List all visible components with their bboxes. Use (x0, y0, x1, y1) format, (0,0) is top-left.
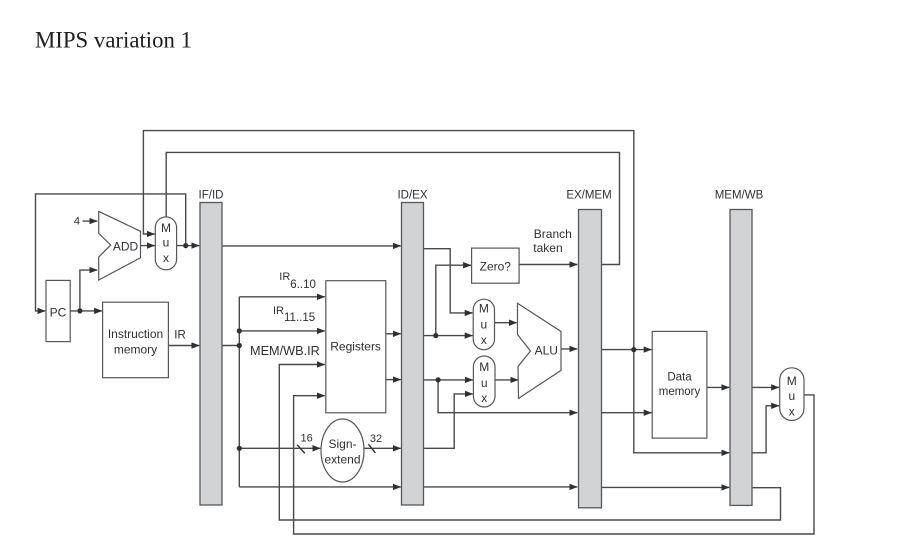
wire IF/ID to ID/EX top (222, 245, 401, 247)
wire IR pass to ID/EX (239, 486, 400, 488)
wire IR chain ID/EX to EX/MEM (424, 486, 578, 488)
junction dot store data branch (436, 377, 441, 382)
wire sign-extend out to ID/EX (364, 447, 401, 449)
svg-text:IR11..15: IR11..15 (273, 305, 315, 324)
svg-text:EX/MEM: EX/MEM (566, 190, 611, 202)
wire mux B out to ALU (495, 379, 518, 381)
wire branch-target top loop to PC mux (143, 131, 633, 350)
svg-text:x: x (163, 251, 169, 265)
svg-text:u: u (481, 317, 488, 331)
svg-text:memory: memory (659, 386, 701, 398)
svg-text:ALU: ALU (535, 344, 558, 358)
wire EX/MEM store data to data memory (602, 412, 652, 414)
wire PC to instruction memory (70, 310, 102, 312)
wire instruction memory to IF/ID (168, 345, 199, 347)
svg-text:Instruction: Instruction (108, 327, 163, 341)
wire vertical feed line (238, 297, 240, 487)
register PC (46, 280, 70, 341)
instruction memory (103, 302, 169, 378)
wire mux A out to ALU (495, 322, 517, 324)
wire ALU result EX/MEM to MEM/WB (634, 350, 730, 453)
svg-text:16: 16 (300, 432, 312, 444)
wire Registers read1 to ID/EX (386, 333, 401, 335)
wire Zero out to EX/MEM (519, 264, 577, 266)
svg-text:x: x (789, 404, 795, 418)
svg-text:Sign-: Sign- (328, 437, 356, 451)
svg-text:Data: Data (667, 372, 692, 384)
svg-text:ADD: ADD (113, 240, 139, 254)
svg-text:u: u (788, 389, 795, 403)
wire ADD out to mux (141, 245, 155, 247)
svg-text:x: x (481, 391, 487, 405)
svg-text:IF/ID: IF/ID (199, 190, 224, 202)
junction dot PC output (77, 308, 82, 313)
wire PC branch up to ADD (80, 270, 97, 311)
wire write data writeback loop (294, 395, 814, 534)
sign-extend (321, 419, 364, 482)
svg-text:M: M (479, 302, 489, 316)
wire mux to IF/ID (177, 245, 200, 247)
wire ALU out to EX/MEM (561, 348, 577, 350)
adder ADD (99, 211, 141, 280)
svg-text:MEM/WB.IR: MEM/WB.IR (250, 344, 320, 358)
wire ID/EX read2 to mux B (424, 379, 473, 381)
wire MEM/WB.IR writeback loop (279, 365, 780, 521)
wire branch-taken loop to PC mux top (166, 152, 619, 264)
wire branch up to Zero (436, 265, 471, 335)
svg-text:Branch: Branch (534, 227, 572, 241)
svg-text:extend: extend (324, 453, 360, 467)
bus slash 16 (297, 445, 305, 454)
bus slash 32 (368, 444, 375, 453)
mux A (ALU input 1) (473, 299, 494, 350)
svg-text:Zero?: Zero? (480, 260, 512, 274)
pipeline register MEM/WB (730, 210, 752, 506)
svg-text:IR6..10: IR6..10 (279, 271, 316, 291)
wire IR chain EX/MEM to MEM/WB (602, 486, 730, 488)
svg-text:x: x (481, 333, 487, 347)
zero detector (472, 248, 519, 283)
svg-text:4: 4 (74, 215, 80, 227)
wire IR 11..15 to Registers (239, 330, 324, 332)
svg-text:MIPS variation 1: MIPS variation 1 (35, 28, 192, 53)
mux final (writeback) (780, 368, 804, 421)
svg-text:taken: taken (533, 241, 562, 255)
svg-text:IR: IR (174, 330, 186, 342)
svg-text:M: M (161, 221, 171, 235)
junction dot mux output (183, 243, 188, 248)
wire EX/MEM to data memory (602, 349, 652, 351)
wire Registers read2 to ID/EX (386, 379, 401, 381)
svg-text:32: 32 (370, 433, 382, 445)
wire MEM/WB to final mux top (752, 386, 779, 388)
wire ID/EX sign-extend to mux B lower (424, 394, 473, 448)
wire IR 6..10 to Registers (239, 296, 324, 298)
svg-text:M: M (787, 374, 797, 388)
wire ID/EX read1 to mux A (424, 335, 473, 337)
registers (326, 281, 386, 413)
ALU (518, 303, 562, 398)
wire IF/ID out to junction (222, 345, 239, 347)
junction dot ALU result branch (631, 347, 636, 352)
wire constant 4 to ADD (83, 220, 98, 222)
svg-text:PC: PC (50, 306, 67, 320)
svg-text:u: u (163, 236, 170, 250)
wire ID/EX to mux A top input (424, 249, 473, 313)
pipeline register EX/MEM (579, 210, 602, 508)
svg-text:Registers: Registers (330, 340, 381, 354)
junction dot IR11..15 (237, 328, 242, 333)
svg-text:M: M (479, 360, 489, 374)
wire data memory out to MEM/WB (707, 386, 729, 388)
pipeline register IF/ID (200, 203, 222, 506)
mux PC (top) (155, 217, 176, 270)
svg-text:u: u (481, 376, 488, 390)
junction dot IF/ID feed (237, 343, 242, 348)
wire feed to sign-extend (239, 447, 320, 449)
junction dot sign-extend feed (237, 446, 242, 451)
wire PC feedback loop (36, 194, 186, 311)
wire MEM/WB ALU result to final mux bottom (752, 406, 779, 453)
data memory (652, 331, 707, 438)
junction dot zero branch (433, 333, 438, 338)
svg-text:ID/EX: ID/EX (397, 190, 427, 202)
mux B (ALU input 2) (473, 356, 495, 407)
wire store data down to EX/MEM (438, 380, 577, 413)
svg-text:MEM/WB: MEM/WB (715, 190, 764, 202)
svg-text:memory: memory (114, 343, 157, 357)
pipeline register ID/EX (402, 203, 424, 506)
